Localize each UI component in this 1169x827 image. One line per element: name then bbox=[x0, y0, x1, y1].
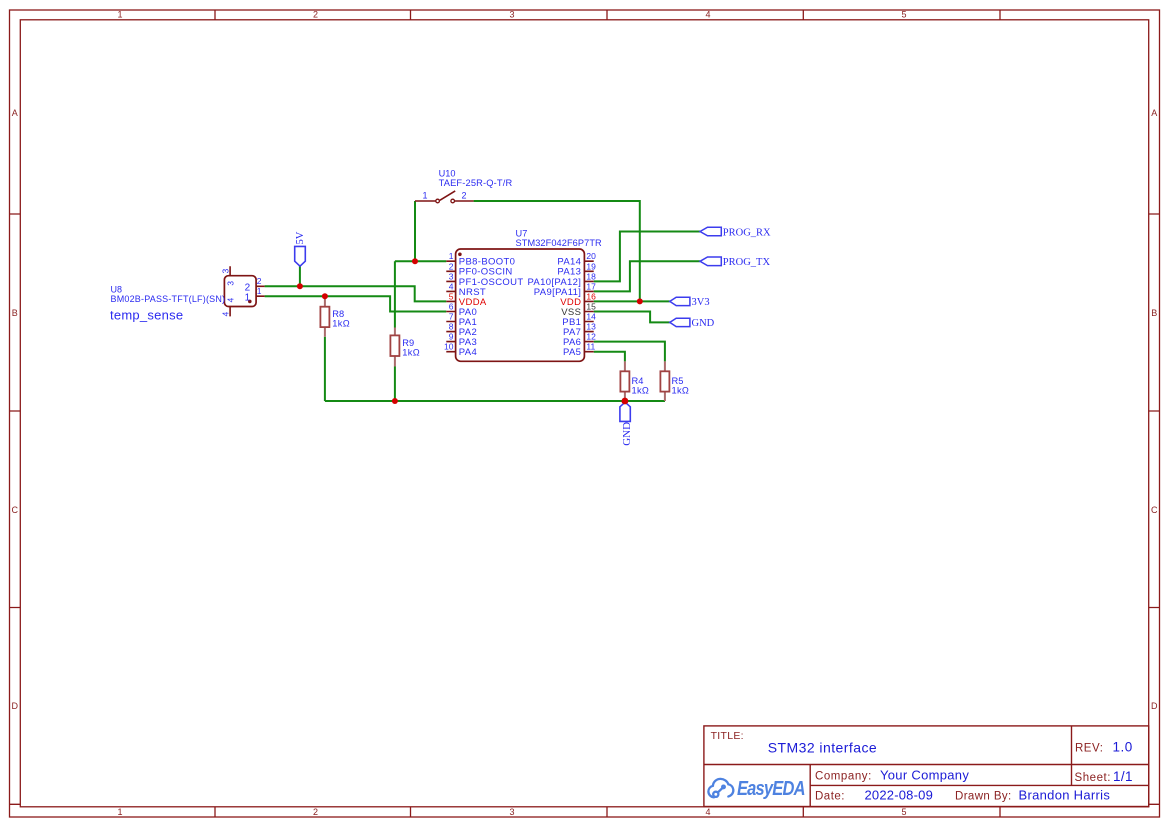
svg-text:U10: U10 bbox=[439, 169, 456, 179]
svg-text:PA5: PA5 bbox=[563, 347, 581, 358]
switch U10 bbox=[415, 169, 512, 203]
svg-text:4: 4 bbox=[225, 298, 235, 303]
svg-text:1.0: 1.0 bbox=[1113, 740, 1133, 755]
svg-text:1: 1 bbox=[422, 190, 427, 200]
svg-text:R9: R9 bbox=[402, 338, 414, 348]
svg-text:9: 9 bbox=[449, 332, 454, 342]
svg-text:4: 4 bbox=[705, 10, 710, 20]
bottom column ticks bbox=[215, 807, 1000, 817]
svg-text:2: 2 bbox=[462, 190, 467, 200]
svg-text:1kΩ: 1kΩ bbox=[332, 318, 350, 328]
svg-text:Your Company: Your Company bbox=[880, 768, 969, 783]
node R8 junction bbox=[322, 293, 328, 299]
svg-text:C: C bbox=[1151, 505, 1158, 515]
svg-text:2022-08-09: 2022-08-09 bbox=[865, 788, 934, 803]
svg-text:1: 1 bbox=[449, 251, 454, 261]
svg-text:B: B bbox=[1151, 308, 1157, 318]
resistor R8 bbox=[320, 296, 350, 336]
U7 pin-1 marker dot bbox=[458, 253, 462, 257]
svg-text:PA4: PA4 bbox=[459, 347, 477, 358]
node 5V junction bbox=[297, 283, 303, 289]
U7 right pin numbers 20-11 bbox=[586, 251, 596, 352]
resistor R5 bbox=[660, 361, 689, 401]
svg-text:18: 18 bbox=[586, 271, 596, 281]
svg-text:STM32 interface: STM32 interface bbox=[768, 740, 877, 756]
svg-text:2: 2 bbox=[313, 10, 318, 20]
node R9 bottom junction bbox=[392, 398, 398, 404]
svg-text:Date:: Date: bbox=[815, 791, 845, 803]
svg-text:4: 4 bbox=[705, 807, 710, 817]
wire pin12 to R5 bbox=[594, 342, 665, 362]
svg-text:PROG_TX: PROG_TX bbox=[723, 257, 771, 268]
svg-text:Company:: Company: bbox=[815, 771, 872, 783]
svg-text:STM32F042F6P7TR: STM32F042F6P7TR bbox=[516, 238, 603, 248]
svg-text:R5: R5 bbox=[672, 376, 684, 386]
wire pin15 VSS to GND bbox=[594, 312, 670, 323]
svg-text:REV:: REV: bbox=[1075, 743, 1103, 755]
net port PROG_TX bbox=[700, 257, 770, 268]
svg-text:11: 11 bbox=[586, 342, 595, 352]
svg-text:5: 5 bbox=[901, 10, 906, 20]
svg-text:EasyEDA: EasyEDA bbox=[737, 776, 805, 799]
wire U7 pin1 horizontal bbox=[395, 260, 446, 262]
U7 left pin names bbox=[459, 257, 524, 359]
svg-text:3: 3 bbox=[449, 271, 454, 281]
svg-text:Brandon Harris: Brandon Harris bbox=[1019, 788, 1111, 803]
svg-text:6: 6 bbox=[449, 302, 454, 312]
net port PROG_RX bbox=[700, 227, 771, 238]
svg-text:16: 16 bbox=[586, 291, 596, 301]
svg-text:R4: R4 bbox=[632, 376, 644, 386]
wire pin18 to PROG_RX bbox=[594, 232, 700, 282]
svg-text:D: D bbox=[1151, 701, 1158, 711]
svg-text:3: 3 bbox=[509, 807, 514, 817]
right row ticks bbox=[1149, 214, 1160, 804]
svg-text:GND: GND bbox=[621, 422, 633, 446]
U10 blade bbox=[440, 191, 455, 200]
U8 pin stubs bbox=[230, 266, 265, 316]
svg-text:R8: R8 bbox=[332, 309, 344, 319]
svg-text:4: 4 bbox=[220, 312, 230, 317]
svg-text:7: 7 bbox=[449, 312, 454, 322]
wire pin16 VDD to 3V3 bbox=[594, 300, 670, 302]
wire pin17 to PROG_TX bbox=[594, 261, 700, 291]
wire R9 top vertical bbox=[394, 261, 396, 327]
svg-text:17: 17 bbox=[586, 281, 596, 291]
svg-text:U7: U7 bbox=[516, 229, 528, 239]
wire R8 bottom bbox=[324, 337, 326, 401]
svg-text:1kΩ: 1kΩ bbox=[672, 386, 690, 396]
resistor R9 bbox=[390, 328, 420, 367]
svg-text:Drawn By:: Drawn By: bbox=[955, 791, 1012, 803]
svg-text:3: 3 bbox=[220, 269, 230, 274]
svg-text:C: C bbox=[12, 505, 19, 515]
svg-text:15: 15 bbox=[586, 302, 596, 312]
svg-text:5V: 5V bbox=[295, 231, 306, 244]
svg-text:1: 1 bbox=[117, 10, 122, 20]
wire U8 pin1 to PA0 bbox=[265, 296, 447, 311]
node GND junction bbox=[622, 398, 629, 405]
svg-text:TITLE:: TITLE: bbox=[711, 730, 744, 742]
U7 left pin numbers 1-10 bbox=[444, 251, 454, 352]
svg-text:1kΩ: 1kΩ bbox=[632, 386, 650, 396]
U7 pin stubs (pins 1-20) bbox=[446, 261, 593, 352]
svg-text:13: 13 bbox=[586, 322, 596, 332]
node VDD junction bbox=[637, 298, 643, 304]
wire switch pin2 right and down to VDD bbox=[474, 201, 640, 301]
U7 body bbox=[456, 249, 585, 361]
svg-text:8: 8 bbox=[449, 322, 454, 332]
svg-text:10: 10 bbox=[444, 342, 454, 352]
svg-text:3: 3 bbox=[509, 10, 514, 20]
svg-text:A: A bbox=[1151, 108, 1157, 118]
wire switch pin1 down to U7 pin1 net bbox=[414, 201, 416, 261]
svg-text:BM02B-PASS-TFT(LF)(SN): BM02B-PASS-TFT(LF)(SN) bbox=[111, 294, 226, 304]
U10 pin stubs bbox=[415, 191, 474, 201]
U10 contact circles bbox=[436, 199, 440, 203]
svg-text:PROG_RX: PROG_RX bbox=[723, 227, 771, 238]
wire pin11 to R4 bbox=[594, 352, 625, 362]
svg-text:2: 2 bbox=[257, 276, 262, 286]
U8 pin-1 marker dot bbox=[248, 300, 252, 304]
wire R9 bottom bbox=[394, 367, 396, 402]
resistor R4 bbox=[620, 361, 649, 401]
svg-text:14: 14 bbox=[586, 312, 596, 322]
svg-text:Sheet:: Sheet: bbox=[1075, 772, 1112, 784]
svg-text:2: 2 bbox=[313, 807, 318, 817]
svg-text:B: B bbox=[12, 308, 18, 318]
svg-text:GND: GND bbox=[692, 318, 715, 329]
power flag 5V bbox=[295, 231, 306, 266]
wire 5V drop bbox=[299, 266, 301, 286]
svg-text:TAEF-25R-Q-T/R: TAEF-25R-Q-T/R bbox=[439, 178, 513, 188]
wire bottom bus bbox=[325, 400, 665, 402]
wire U8 pin2 to VDDA bbox=[265, 286, 447, 301]
svg-text:4: 4 bbox=[449, 281, 454, 291]
svg-text:5: 5 bbox=[449, 291, 454, 301]
left row ticks bbox=[10, 214, 21, 804]
net port GND (right) bbox=[670, 318, 715, 329]
top column ticks bbox=[215, 10, 1000, 20]
svg-text:1/1: 1/1 bbox=[1113, 769, 1133, 784]
svg-text:3: 3 bbox=[225, 281, 235, 286]
node switch/PB8 junction bbox=[412, 258, 418, 264]
junction dots bbox=[297, 258, 643, 404]
net port 3V3 bbox=[670, 297, 710, 308]
svg-text:1: 1 bbox=[245, 292, 251, 303]
U7 right pin names bbox=[527, 257, 581, 359]
connector U8 bbox=[110, 266, 265, 322]
svg-text:1: 1 bbox=[257, 286, 262, 296]
svg-text:2: 2 bbox=[449, 261, 454, 271]
EasyEDA logo bbox=[708, 776, 805, 799]
svg-text:1kΩ: 1kΩ bbox=[402, 348, 420, 358]
svg-text:D: D bbox=[12, 701, 19, 711]
IC U7 STM32F042F6P7TR bbox=[444, 229, 602, 362]
svg-text:temp_sense: temp_sense bbox=[110, 308, 183, 323]
U8 body bbox=[224, 276, 256, 307]
svg-text:1: 1 bbox=[117, 807, 122, 817]
svg-text:20: 20 bbox=[586, 251, 596, 261]
svg-text:A: A bbox=[12, 108, 18, 118]
svg-text:3V3: 3V3 bbox=[692, 297, 710, 308]
svg-text:19: 19 bbox=[586, 261, 596, 271]
ground flag GND (bottom) bbox=[620, 402, 633, 446]
svg-text:12: 12 bbox=[586, 332, 596, 342]
svg-text:5: 5 bbox=[901, 807, 906, 817]
